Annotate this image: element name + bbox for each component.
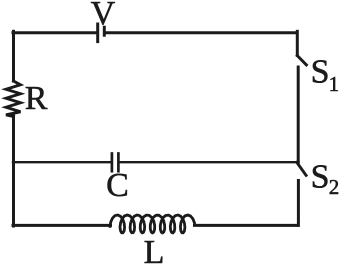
svg-text:C: C [106, 167, 129, 204]
svg-text:V: V [91, 0, 116, 32]
svg-text:2: 2 [329, 175, 340, 199]
svg-text:S: S [311, 54, 330, 91]
svg-text:1: 1 [329, 72, 340, 96]
svg-text:R: R [25, 80, 48, 117]
svg-text:S: S [311, 159, 330, 196]
svg-text:L: L [144, 234, 165, 267]
